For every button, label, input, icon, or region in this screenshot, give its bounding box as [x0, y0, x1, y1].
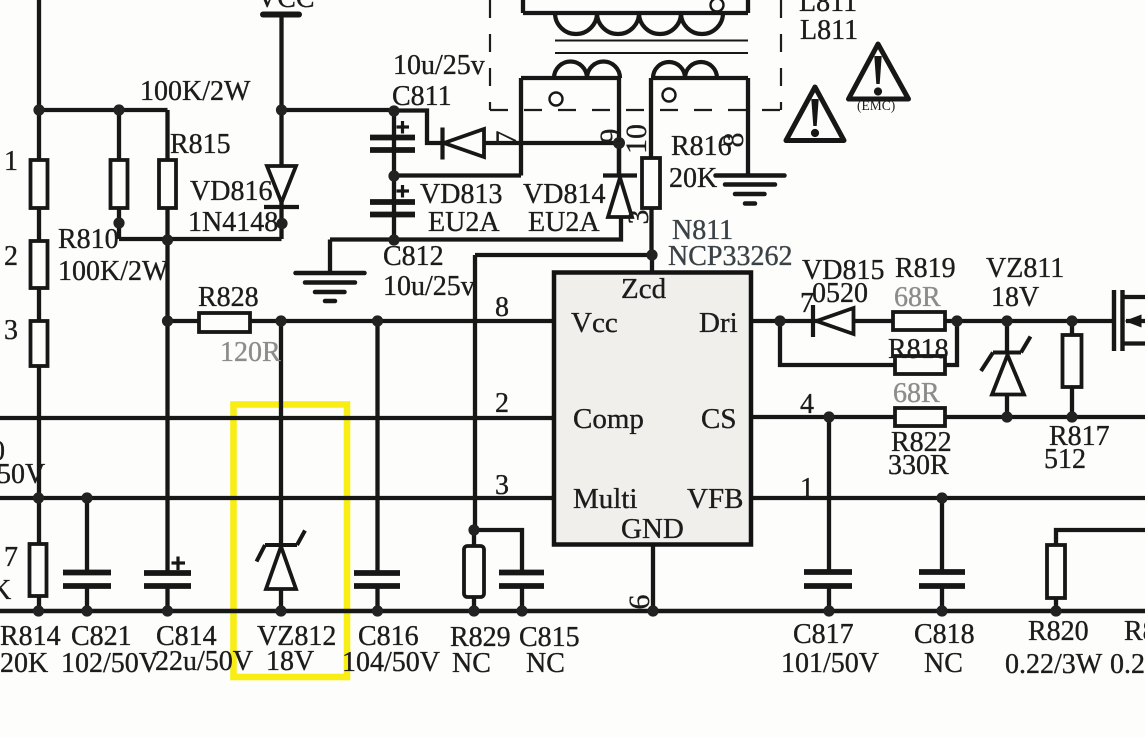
svg-text:EU2A: EU2A [528, 207, 600, 238]
svg-text:(EMC): (EMC) [857, 98, 895, 113]
svg-text:Multi: Multi [573, 483, 637, 515]
svg-text:C817: C817 [793, 619, 854, 650]
svg-text:7: 7 [490, 131, 523, 146]
svg-text:512: 512 [1044, 444, 1086, 475]
svg-text:Zcd: Zcd [621, 273, 667, 305]
svg-text:8: 8 [495, 292, 509, 323]
svg-text:VD816: VD816 [190, 176, 272, 207]
svg-text:10u/25v: 10u/25v [393, 50, 485, 81]
svg-text:R820: R820 [1028, 616, 1089, 647]
svg-text:2: 2 [4, 241, 18, 272]
svg-text:101/50V: 101/50V [781, 648, 879, 679]
svg-text:120R: 120R [220, 337, 281, 368]
svg-text:104/50V: 104/50V [342, 647, 440, 678]
svg-text:8: 8 [717, 133, 750, 148]
svg-text:22u/50V: 22u/50V [155, 646, 253, 677]
svg-text:NC: NC [924, 648, 963, 679]
svg-text:1: 1 [800, 473, 814, 504]
svg-text:0520: 0520 [812, 278, 868, 309]
svg-text:NC: NC [526, 648, 565, 679]
svg-text:330R: 330R [888, 450, 949, 481]
svg-text:68R: 68R [893, 378, 940, 409]
svg-text:R819: R819 [895, 253, 956, 284]
svg-text:NCP33262: NCP33262 [668, 241, 792, 272]
svg-text:C818: C818 [914, 619, 975, 650]
svg-text:VZ811: VZ811 [986, 253, 1064, 284]
svg-text:6: 6 [623, 595, 656, 610]
svg-text:VCC: VCC [257, 0, 315, 14]
svg-text:68R: 68R [894, 282, 941, 313]
svg-text:100K/2W: 100K/2W [140, 76, 251, 107]
svg-text:2: 2 [495, 388, 509, 419]
svg-text:50V: 50V [0, 459, 45, 490]
svg-text:0.22/3W: 0.22/3W [1005, 649, 1103, 680]
svg-text:EU2A: EU2A [428, 207, 500, 238]
svg-text:7: 7 [800, 288, 814, 319]
svg-text:VD813: VD813 [420, 179, 502, 210]
svg-text:R815: R815 [170, 129, 231, 160]
svg-text:10: 10 [620, 124, 653, 154]
svg-text:R818: R818 [888, 334, 949, 365]
svg-text:1N4148: 1N4148 [188, 207, 278, 238]
svg-text:K: K [0, 575, 11, 606]
svg-text:20K: 20K [669, 163, 717, 194]
svg-text:R8: R8 [1124, 616, 1145, 647]
svg-text:3: 3 [4, 315, 18, 346]
svg-text:1: 1 [4, 146, 18, 177]
svg-text:18V: 18V [266, 646, 314, 677]
svg-text:NC: NC [452, 648, 491, 679]
svg-text:VD814: VD814 [523, 179, 605, 210]
svg-text:Comp: Comp [573, 403, 644, 435]
svg-text:4: 4 [800, 389, 814, 420]
svg-text:102/50V: 102/50V [61, 648, 159, 679]
svg-text:18V: 18V [991, 282, 1039, 313]
svg-text:100K/2W: 100K/2W [58, 256, 169, 287]
svg-text:GND: GND [621, 513, 684, 545]
svg-text:3: 3 [622, 210, 655, 225]
svg-text:C811: C811 [392, 81, 452, 112]
svg-text:7: 7 [4, 542, 18, 573]
svg-text:10u/25v: 10u/25v [383, 271, 475, 302]
svg-text:Dri: Dri [699, 307, 738, 339]
svg-text:R810: R810 [58, 224, 119, 255]
svg-text:VFB: VFB [687, 483, 743, 515]
svg-text:C812: C812 [383, 241, 444, 272]
svg-text:R828: R828 [198, 282, 259, 313]
svg-text:0.22: 0.22 [1110, 649, 1145, 680]
svg-text:CS: CS [701, 403, 736, 435]
svg-text:20K: 20K [0, 648, 48, 679]
svg-text:3: 3 [495, 470, 509, 501]
svg-text:Vcc: Vcc [571, 307, 618, 339]
svg-text:L811: L811 [800, 15, 858, 46]
